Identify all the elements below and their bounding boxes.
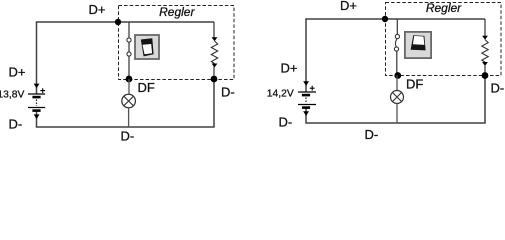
- wire: top rail right circuit: [305, 18, 485, 20]
- battery plate: long positive 2: [28, 107, 45, 109]
- wire: left branch upper segment (right circuit): [305, 19, 307, 92]
- wire: DF node down to lamp (left): [128, 79, 130, 94]
- wire: resistor to D- node (right): [484, 65, 486, 76]
- wire: lamp down to bottom rail (left): [128, 108, 130, 127]
- contact terminal lower (left): [127, 52, 131, 56]
- wire: bottom rail right circuit: [305, 122, 485, 124]
- svg-text:14,2V: 14,2V: [267, 88, 294, 99]
- svg-text:Regler: Regler: [159, 5, 195, 19]
- battery cell continuation dots: [36, 100, 38, 107]
- regulator box (dashed) left: [119, 6, 235, 80]
- svg-text:D+: D+: [89, 2, 106, 17]
- svg-text:Regler: Regler: [426, 1, 462, 15]
- wire: contact branch lower segment to DF node (left): [128, 56, 130, 79]
- wire: left branch lower segment (battery - side): [36, 111, 38, 127]
- svg-text:13,8V: 13,8V: [0, 89, 24, 100]
- wire: regulator internal drop to field resistor (left): [213, 22, 215, 38]
- wire: lamp down to bottom rail (right): [396, 104, 398, 124]
- resistor (field winding) left : top arrow: [212, 37, 218, 41]
- node D- junction dot (left): [211, 76, 218, 83]
- battery plate: short negative 1: [32, 96, 40, 99]
- svg-text:D+: D+: [281, 61, 298, 76]
- current arrow below battery: [303, 111, 309, 116]
- plus sign at battery: [310, 86, 315, 91]
- svg-text:D-: D-: [491, 81, 505, 96]
- battery plate: short negative 2: [302, 106, 310, 109]
- battery plate: short negative 2: [32, 109, 40, 112]
- contact terminal upper (left): [127, 38, 131, 42]
- charge indicator lamp (left): [122, 94, 136, 108]
- battery plate: long positive 2: [298, 104, 316, 106]
- resistor (field winding) right : bottom arrow: [482, 62, 488, 66]
- node DF junction dot (right): [394, 72, 401, 79]
- battery plate: short negative 1: [302, 94, 310, 97]
- svg-text:DF: DF: [406, 77, 423, 92]
- node DF junction dot (left): [126, 76, 133, 83]
- plus sign at battery: [40, 88, 45, 93]
- svg-text:D+: D+: [9, 65, 26, 80]
- contact terminal upper (right): [395, 34, 399, 38]
- resistor (field winding) right : top arrow: [482, 36, 488, 40]
- wire: contact branch upper segment (right): [396, 19, 398, 35]
- battery plate: long positive 1: [28, 93, 45, 95]
- wire: top rail left circuit from battery branch to resistor branch: [36, 21, 214, 23]
- node D- junction dot (right): [482, 72, 489, 79]
- charge indicator lamp (right): [391, 91, 404, 104]
- wire: left branch upper segment (battery + side): [36, 22, 38, 94]
- resistor (field winding) left : zigzag: [211, 41, 217, 64]
- wire: regulator internal drop to field resistor (right): [484, 19, 486, 36]
- wire: resistor to D- node (left): [213, 66, 215, 79]
- contact terminal lower (right): [394, 47, 398, 51]
- switch icon (rocker OFF) right: [405, 32, 431, 58]
- wire: DF node down to lamp (right): [396, 76, 398, 91]
- svg-text:D+: D+: [340, 0, 357, 13]
- svg-text:D-: D-: [121, 129, 135, 144]
- battery 13,8V (left): [28, 84, 45, 120]
- svg-text:D-: D-: [365, 127, 379, 142]
- wire: bottom rail left circuit: [36, 126, 215, 128]
- current arrow above battery: [303, 81, 309, 86]
- svg-text:DF: DF: [138, 80, 155, 95]
- contact open lever (right, switch open): [395, 39, 397, 47]
- wire: right branch left circuit (D- down from regulator): [213, 79, 215, 127]
- resistor (field winding) left : bottom arrow: [212, 64, 218, 68]
- svg-text:D-: D-: [9, 117, 23, 132]
- switch icon (rocker ON) left: [135, 35, 159, 59]
- current arrow above battery: [34, 84, 40, 89]
- battery 14,2V (right): [298, 81, 316, 116]
- resistor (field winding) right : zigzag: [482, 40, 488, 62]
- node D+ junction dot (left): [115, 19, 121, 25]
- regulator box (dashed) right: [386, 3, 502, 76]
- node D+ junction dot (right): [382, 16, 388, 22]
- current arrow below battery: [34, 114, 40, 119]
- contact closed lever (left, switch closed): [128, 42, 130, 52]
- wire: right branch right circuit (D- down from regulator): [484, 76, 486, 124]
- svg-text:D-: D-: [279, 115, 293, 130]
- svg-text:D-: D-: [221, 85, 235, 100]
- wire: contact branch lower segment to DF node (right): [396, 51, 398, 75]
- battery cell continuation dots: [305, 98, 307, 104]
- wire: contact branch upper segment (left): [128, 22, 130, 38]
- wire: left branch lower segment (right circuit): [305, 107, 307, 123]
- battery plate: long positive 1: [298, 91, 316, 93]
